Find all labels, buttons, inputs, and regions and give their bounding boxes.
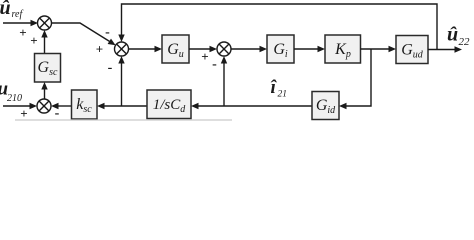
wire SJ3 to G_i [231,46,267,53]
wire G_u to SJ3 [189,46,217,53]
summing junction SJ3 [217,42,231,56]
wire SJ2 to G_u [129,46,163,53]
wire branch up to SJ2 bottom input [118,56,124,106]
block G_id [312,92,339,120]
wire SJ1 to SJ2 (diagonal) [52,23,116,45]
block G_ud (top) [396,36,428,64]
svg-text:-: - [212,57,217,72]
wire G_sc output to SJ1 [41,30,47,54]
node u_22 label [447,23,470,48]
wire top feedback from output node to SJ2 [118,4,437,50]
svg-text:û: û [0,0,11,19]
faint scan artifact line at bottom [15,119,232,121]
wire u_210 input arrow [3,103,37,110]
wire 1/sCd output to k_sc [97,103,147,110]
svg-text:+: + [201,49,208,64]
svg-text:+: + [19,25,26,40]
block G_sc [35,54,61,83]
svg-text:+: + [96,42,103,57]
wire output u_22 arrow [428,46,462,53]
node u_ref label [0,0,23,20]
svg-text:ref: ref [12,9,24,20]
wire junction after K_p down to G_id [339,49,371,109]
svg-text:-: - [105,25,110,40]
wire u_ref input arrow [3,20,38,27]
summing junction SJ4 [37,99,51,113]
summing junction SJ1 [38,16,52,30]
block 1/sCd [147,90,191,119]
wire SJ4 output to G_sc [41,82,47,99]
svg-text:22: 22 [459,36,471,48]
wire G_i to K_p [294,46,325,53]
svg-text:û: û [447,23,458,45]
svg-text:21: 21 [278,90,288,100]
node u_210 label [0,79,22,105]
block K_p [325,35,361,63]
wire branch up to SJ3 bottom input [221,56,227,106]
block k_sc [72,90,98,119]
block G_i [267,35,294,63]
wire G_id output to 1/sCd [191,103,312,110]
svg-text:+: + [30,33,37,48]
wire K_p to G_ud with junction [361,46,397,53]
block G_u [162,35,189,63]
node i_21 label [271,77,288,100]
wire k_sc output to SJ4 [51,103,72,110]
summing junction SJ2 [115,42,129,56]
svg-text:-: - [108,61,113,76]
svg-text:210: 210 [7,93,22,104]
svg-text:+: + [20,106,27,121]
